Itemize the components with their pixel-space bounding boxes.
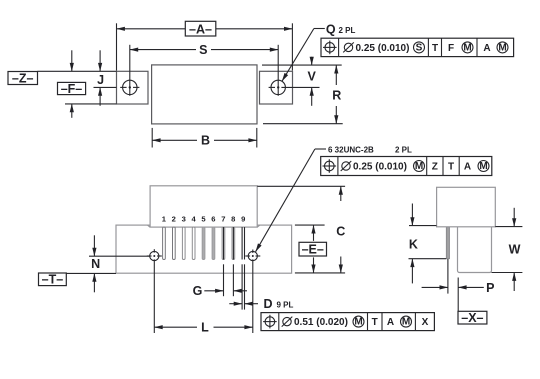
svg-text:G: G (193, 284, 203, 298)
svg-text:T: T (372, 317, 378, 328)
svg-text:9 PL: 9 PL (277, 300, 294, 309)
svg-text:T: T (448, 162, 454, 173)
svg-text:V: V (308, 70, 317, 84)
svg-text:6: 6 (211, 215, 215, 224)
svg-text:M: M (354, 317, 362, 328)
svg-text:M: M (415, 161, 423, 172)
svg-text:M: M (479, 161, 487, 172)
svg-text:R: R (332, 88, 341, 102)
svg-text:7: 7 (221, 215, 225, 224)
svg-text:S: S (416, 42, 423, 53)
svg-text:A: A (464, 162, 471, 173)
svg-text:9: 9 (241, 215, 245, 224)
svg-text:A: A (387, 317, 394, 328)
svg-text:K: K (409, 238, 418, 252)
svg-text:D: D (263, 297, 272, 311)
svg-text:N: N (91, 257, 100, 271)
svg-text:M: M (498, 42, 506, 53)
svg-text:0.25 (0.010): 0.25 (0.010) (353, 162, 407, 173)
svg-text:–Z–: –Z– (12, 71, 34, 85)
svg-text:–X–: –X– (461, 311, 483, 325)
svg-text:0.51 (0.020): 0.51 (0.020) (294, 317, 348, 328)
svg-text:8: 8 (231, 215, 235, 224)
svg-text:L: L (201, 321, 209, 335)
svg-text:2: 2 (172, 215, 176, 224)
svg-text:Z: Z (432, 162, 438, 173)
svg-text:C: C (336, 224, 345, 238)
svg-text:2 PL: 2 PL (339, 26, 356, 35)
svg-text:–A–: –A– (189, 22, 212, 36)
svg-text:J: J (97, 73, 104, 87)
svg-text:X: X (422, 317, 429, 328)
svg-text:0.25 (0.010): 0.25 (0.010) (356, 43, 410, 54)
svg-text:W: W (509, 242, 521, 256)
svg-text:A: A (483, 43, 490, 54)
svg-text:–E–: –E– (302, 243, 324, 257)
svg-text:B: B (201, 134, 210, 148)
svg-text:M: M (463, 42, 471, 53)
svg-text:Q: Q (326, 23, 336, 37)
svg-text:P: P (486, 281, 494, 295)
svg-text:–T–: –T– (42, 273, 64, 287)
svg-text:M: M (402, 317, 410, 328)
svg-text:F: F (448, 43, 454, 54)
svg-text:6 32UNC-2B: 6 32UNC-2B (328, 146, 374, 155)
svg-text:T: T (432, 43, 438, 54)
svg-text:3: 3 (182, 215, 186, 224)
svg-text:S: S (199, 43, 207, 57)
svg-text:2 PL: 2 PL (395, 146, 412, 155)
svg-text:–F–: –F– (61, 82, 83, 96)
